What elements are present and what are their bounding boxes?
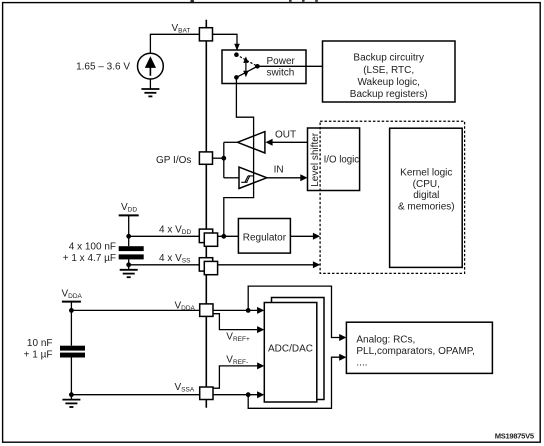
wire VSSA to pin bbox=[71, 394, 199, 396]
svg-text:Kernel logic: Kernel logic bbox=[400, 168, 452, 179]
svg-text:(LSE, RTC,: (LSE, RTC, bbox=[363, 65, 414, 76]
wire VDDA rail to pin bbox=[71, 309, 199, 311]
regulator box bbox=[238, 219, 290, 254]
VDDA rail symbol bbox=[62, 301, 81, 303]
pin 4xVDD squares bbox=[199, 229, 212, 243]
svg-text:digital: digital bbox=[413, 190, 439, 201]
cropped caption remnant bbox=[191, 0, 318, 2]
svg-text:GP I/Os: GP I/Os bbox=[156, 155, 191, 166]
svg-text:MS19875V5: MS19875V5 bbox=[495, 431, 535, 440]
wire IN to level shifter bbox=[267, 177, 304, 179]
pin VBAT square bbox=[199, 28, 212, 41]
VDD rail symbol bbox=[119, 214, 139, 216]
backup circuitry box U2 bbox=[323, 41, 456, 102]
wire to OUT buffer tip bbox=[224, 141, 238, 143]
ground G1 bbox=[141, 89, 159, 96]
svg-text:IN: IN bbox=[274, 165, 284, 176]
svg-text:+ 1 µF: + 1 µF bbox=[24, 349, 53, 360]
kernel logic box bbox=[390, 128, 463, 267]
junction buffers supply bbox=[221, 234, 226, 239]
capacitor C2 plates bbox=[60, 346, 85, 351]
svg-text:Level shifter: Level shifter bbox=[310, 132, 321, 187]
wire VSSA pin to ADC bbox=[213, 394, 260, 396]
junction VDD rail bbox=[126, 234, 131, 239]
ADC/DAC stack rear box bbox=[272, 298, 325, 400]
capacitor C1 plates bbox=[119, 246, 144, 251]
wire to IN buffer input bbox=[224, 177, 239, 179]
wire power switch output down to buffers bbox=[224, 77, 254, 236]
svg-text:OUT: OUT bbox=[275, 130, 296, 141]
svg-text:(CPU,: (CPU, bbox=[413, 179, 440, 190]
buffer IN (Schmitt trigger) bbox=[239, 167, 267, 188]
svg-text:+ 1 x 4.7 µF: + 1 x 4.7 µF bbox=[63, 253, 116, 264]
svg-text:Regulator: Regulator bbox=[243, 232, 287, 243]
switch symbol bbox=[234, 52, 260, 79]
wire VREF- bbox=[213, 366, 260, 388]
pin 4xVSS squares bbox=[199, 258, 212, 271]
schmitt hysteresis glyph bbox=[241, 176, 253, 182]
svg-text:Backup circuitry: Backup circuitry bbox=[353, 53, 424, 64]
ADC/DAC front box bbox=[264, 303, 317, 403]
pin VDDA square bbox=[200, 304, 213, 317]
wire source to ground bbox=[149, 79, 151, 89]
svg-text:Analog: RCs,: Analog: RCs, bbox=[356, 334, 415, 345]
wire VSS to pin bbox=[129, 264, 199, 266]
kernel dashed container bbox=[320, 121, 465, 273]
junction VDDA rail bbox=[69, 308, 74, 313]
wire regulator to kernel bbox=[290, 235, 316, 237]
svg-text:Backup registers): Backup registers) bbox=[350, 89, 428, 100]
svg-text:& memories): & memories) bbox=[398, 202, 455, 213]
wire C1 to VSS bbox=[128, 259, 130, 269]
buffer OUT (triangle) bbox=[238, 132, 265, 153]
svg-text:PLL,comparators, OPAMP,: PLL,comparators, OPAMP, bbox=[356, 346, 475, 357]
ground G2 bbox=[120, 270, 138, 277]
wire VBAT pin to power switch bbox=[213, 34, 238, 50]
svg-text:....: .... bbox=[356, 358, 367, 369]
junction VDDA analog bbox=[246, 308, 251, 313]
wire power switch to backup box bbox=[257, 65, 322, 67]
wire VSSA under ADC to analog bbox=[248, 357, 342, 408]
wire VDDA over ADC to analog bbox=[248, 286, 342, 337]
power switch box bbox=[222, 50, 306, 84]
pin VSSA square bbox=[200, 387, 213, 400]
wire OUT from level shifter bbox=[272, 141, 308, 143]
wire VSS pin to kernel bbox=[218, 264, 317, 266]
wire GPIO to buffers bbox=[213, 157, 224, 159]
wire VBAT source to pin bbox=[150, 34, 199, 53]
svg-text:Power: Power bbox=[267, 56, 296, 67]
wire VREF+ bbox=[213, 314, 260, 330]
wire VDD pin to regulator bbox=[218, 235, 239, 237]
level shifter / IO logic box bbox=[308, 128, 360, 191]
ground G3 bbox=[62, 400, 80, 407]
svg-text:switch: switch bbox=[267, 67, 295, 78]
bus VBAT/VDD vertical rail bbox=[205, 20, 207, 408]
svg-text:1.65 – 3.6 V: 1.65 – 3.6 V bbox=[76, 62, 130, 73]
pin GP I/Os square bbox=[199, 152, 212, 164]
svg-text:10 nF: 10 nF bbox=[27, 338, 53, 349]
wire C2 to VSSA bbox=[70, 358, 72, 400]
junction VSSA bbox=[69, 392, 74, 397]
svg-text:Wakeup logic,: Wakeup logic, bbox=[357, 77, 419, 88]
svg-text:I/O logic: I/O logic bbox=[324, 154, 360, 165]
junction GPIO bbox=[221, 156, 226, 161]
wire VDD rail to pin bbox=[129, 235, 199, 237]
junction VSS bbox=[126, 262, 131, 267]
battery source V1 bbox=[138, 53, 164, 79]
svg-text:4 x 100 nF: 4 x 100 nF bbox=[69, 242, 116, 253]
wire VDDA pin to ADC bbox=[213, 309, 260, 311]
junction VSSA analog bbox=[246, 392, 251, 397]
svg-text:ADC/DAC: ADC/DAC bbox=[268, 343, 313, 354]
analog box bbox=[346, 322, 492, 373]
